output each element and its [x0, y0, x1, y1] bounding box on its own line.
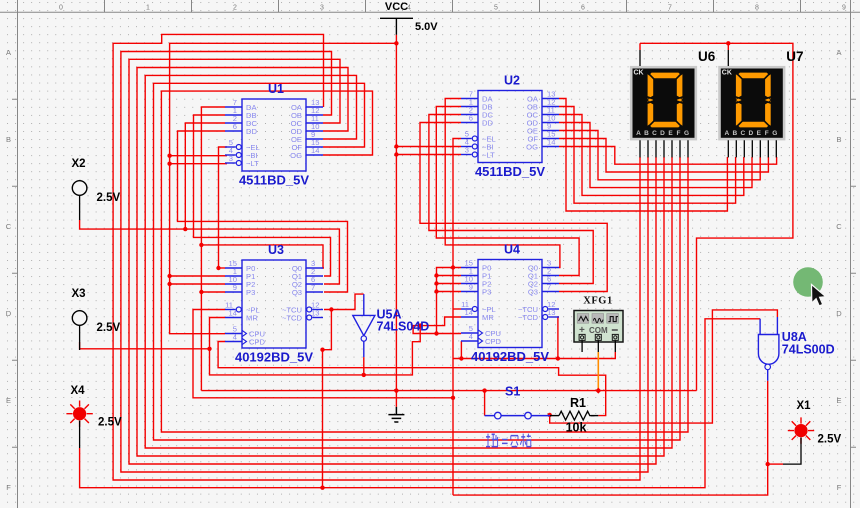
- IC U4 pin 4 (CPD) left: [461, 332, 502, 346]
- svg-text:4511BD_5V: 4511BD_5V: [239, 173, 309, 188]
- wire wrap U4 Q0 to U2 DA: [445, 99, 560, 268]
- svg-text:74LS00D: 74LS00D: [782, 343, 835, 357]
- svg-text:4: 4: [233, 333, 237, 342]
- inverter U5A 74LS04D: [353, 294, 375, 357]
- wire U4 ~TCD drop: [558, 317, 559, 359]
- svg-text:A: A: [724, 130, 729, 137]
- IC U2 pin 12 (OB) right: [527, 98, 559, 112]
- svg-text:14: 14: [547, 138, 555, 147]
- IC U1 pin 2 (DC) left: [225, 114, 257, 128]
- border column numbers: [59, 5, 846, 12]
- svg-text:C: C: [652, 130, 657, 137]
- svg-text:P3: P3: [246, 288, 255, 297]
- IC U2 pin 2 (DC) left: [461, 106, 493, 120]
- svg-text:2.5V: 2.5V: [97, 192, 121, 204]
- svg-text:D: D: [748, 130, 753, 137]
- XFG1 terminal labels: [579, 325, 618, 336]
- IC U4 pin 6 (Q2) right: [528, 275, 559, 289]
- IC U1 pin 15 (OF) right: [291, 138, 323, 152]
- IC U1 4511BD_5V body: [242, 99, 306, 171]
- junction U3 P2 on VCC rail: [167, 282, 171, 286]
- wire U4 P1 branch: [437, 275, 462, 277]
- svg-text:U3: U3: [268, 243, 284, 257]
- svg-text:4: 4: [469, 332, 473, 341]
- junction U3 ~PL on x453: [451, 396, 455, 400]
- wire U2 OF(15) to U7 seg F: [559, 139, 768, 173]
- svg-text:0: 0: [59, 5, 63, 12]
- probe X4 (lamp/indicator star): [66, 401, 92, 427]
- svg-text:2: 2: [233, 5, 237, 12]
- wire U3 P0 stub wire: [219, 267, 226, 269]
- wire wrap U4 Q2 to U2 DC: [429, 115, 593, 284]
- junction U5A output: [362, 373, 366, 377]
- svg-text:B: B: [6, 135, 11, 144]
- display U6 segment separators: [647, 72, 684, 129]
- label key equals space: [486, 434, 531, 447]
- junction X4 wire: [320, 486, 324, 490]
- wire X3 probe wire: [80, 342, 210, 349]
- wire U1 OG(14) to U6 seg G: [161, 91, 688, 432]
- svg-text:OG: OG: [526, 142, 538, 151]
- svg-text:XFG1: XFG1: [583, 296, 612, 307]
- wire U4 P3 branch: [437, 291, 462, 293]
- wire branch VCC to U3 P1: [170, 275, 225, 277]
- junction S1 R1 node: [548, 413, 552, 417]
- svg-text:CPD: CPD: [485, 337, 502, 346]
- junction U2 ~BI on rail: [394, 144, 398, 148]
- svg-text:MR: MR: [246, 313, 258, 322]
- junction rail at S1 node: [394, 388, 398, 392]
- wire U3 ~PL down to x453 net: [193, 310, 452, 398]
- svg-text:13: 13: [547, 308, 555, 317]
- IC U1 pin 11 (OC) right: [291, 114, 323, 128]
- IC U3 pin 7 (Q3) right: [292, 283, 323, 297]
- IC U4 pin 12 (~TCU) right: [518, 300, 559, 314]
- wire S1 branch down: [484, 391, 486, 416]
- wire U2 OG(14) to U7 seg G: [559, 147, 777, 165]
- wire U1 OF(15) to U6 seg F: [154, 83, 681, 440]
- probe X1 (lamp/indicator star): [788, 417, 814, 443]
- svg-text:P3: P3: [482, 287, 491, 296]
- svg-text:C: C: [836, 222, 842, 231]
- wire U8A output down: [453, 381, 768, 495]
- probe X3 (voltage probe circle): [72, 311, 87, 350]
- wire U1 ~EL to U3 P0: [219, 147, 228, 268]
- svg-text:E: E: [6, 396, 11, 405]
- IC U3 pin 12 (~TCU) right: [282, 301, 323, 315]
- IC U1 pin 14 (OG) right: [290, 146, 323, 160]
- IC U3 pin 5 (CPU) left: [225, 325, 265, 339]
- junction S1 vertical: [482, 388, 486, 392]
- IC U1 pin 6 (DD) left: [225, 122, 257, 136]
- display U7 pin letters: [724, 130, 777, 137]
- IC U4 pin 5 (CPU) left: [461, 324, 501, 338]
- wire U4 MR CPU jog: [413, 317, 461, 334]
- svg-text:C: C: [6, 222, 12, 231]
- wire X4 net vertical x=322.5: [322, 350, 324, 488]
- svg-text:3: 3: [465, 146, 469, 155]
- svg-text:CK: CK: [634, 70, 644, 77]
- IC U3 pin 15 (P0) left: [225, 259, 255, 273]
- svg-text:74LS04D: 74LS04D: [377, 320, 430, 334]
- svg-text:X1: X1: [797, 400, 812, 412]
- wire X2 probe wire: [80, 220, 186, 229]
- junction x453 at U4 P0: [451, 265, 455, 269]
- probe X1 lead: [783, 438, 801, 465]
- svg-text:1: 1: [146, 5, 150, 12]
- IC U2 pin 14 (OG) right: [526, 138, 559, 152]
- junction U3 P3: [199, 290, 203, 294]
- svg-text:MR: MR: [482, 313, 494, 322]
- svg-text:10k: 10k: [566, 421, 587, 435]
- svg-text:3: 3: [229, 154, 233, 163]
- svg-text:U1: U1: [268, 82, 284, 96]
- wire U2 OE(9) to U7 seg E: [559, 131, 760, 180]
- wire branch rail to U2 ~LT: [396, 154, 461, 156]
- svg-text:D: D: [836, 309, 842, 318]
- junction V1 at U4 CPU: [434, 331, 438, 335]
- svg-text:~LT: ~LT: [482, 150, 495, 159]
- svg-text:~TCD: ~TCD: [518, 313, 539, 322]
- wire branch U3 P3: [201, 291, 225, 293]
- junction U5A net at MR jog: [418, 323, 422, 327]
- wire U3 MR / U5A output net: [210, 318, 421, 375]
- svg-text:2.5V: 2.5V: [97, 322, 121, 334]
- wire U4 ~PL branch: [453, 308, 461, 310]
- seven-segment display U6 body: [631, 67, 696, 139]
- svg-text:7: 7: [668, 5, 672, 12]
- probe X2 (voltage probe circle): [72, 181, 87, 220]
- wire U2 OB(12) to U7 seg B: [559, 107, 736, 204]
- display U7 segment separators: [735, 72, 772, 129]
- IC U1 pin 7 (DA) left: [225, 98, 257, 112]
- IC U2 pin 1 (DB) left: [461, 98, 493, 112]
- wire U4 P2 branch: [437, 283, 462, 285]
- svg-text:4511BD_5V: 4511BD_5V: [475, 164, 545, 179]
- junction U1 ~BI on VCC rail: [167, 154, 171, 158]
- svg-text:8: 8: [755, 5, 759, 12]
- XFG1 terminals: [579, 334, 618, 340]
- svg-text:G: G: [772, 130, 777, 137]
- IC U4 pin 2 (Q1) right: [528, 267, 559, 281]
- svg-text:VCC: VCC: [385, 1, 408, 13]
- wire wrap U3 Q1 to U1 DB: [194, 115, 331, 276]
- wire XFG1 COM orange: [597, 352, 599, 391]
- wire U7 CK red stub: [727, 43, 729, 50]
- svg-text:A: A: [6, 48, 11, 57]
- junction U2 ~LT on rail: [394, 152, 398, 156]
- wire U4 CPD drop: [460, 341, 462, 359]
- junction U4 P3: [434, 289, 438, 293]
- IC U2 pin 3 (~LT) left: [461, 146, 495, 160]
- junction U1 DA wrap: [199, 243, 203, 247]
- wire U5A output to net dot: [363, 357, 365, 375]
- svg-text:U2: U2: [504, 74, 520, 88]
- IC U2 pin 4 (~BI) left: [461, 138, 494, 152]
- svg-text:F: F: [765, 130, 769, 137]
- svg-text:CPD: CPD: [249, 337, 266, 346]
- svg-text:E: E: [757, 130, 762, 137]
- junction X3 tap on MR wire: [207, 347, 211, 351]
- IC U2 pin 13 (OA) right: [527, 90, 559, 104]
- IC U3 pin 3 (Q0) right: [292, 259, 323, 273]
- wire clock to displays CK: [640, 43, 793, 390]
- wire U4 P0 branch: [437, 268, 462, 334]
- IC U1 pin 10 (OD) right: [291, 122, 323, 136]
- svg-text:X4: X4: [71, 385, 86, 397]
- junction U3 ~TCU drop: [329, 307, 333, 311]
- IC U4 pin 15 (P0) left: [461, 259, 491, 273]
- svg-text:13: 13: [311, 309, 319, 318]
- wire VCC horizontal rail to left: [170, 43, 397, 333]
- wire U3 ~TCU drop to X4 net: [323, 310, 332, 350]
- svg-text:U4: U4: [504, 243, 520, 257]
- svg-text:2.5V: 2.5V: [818, 434, 842, 446]
- junction U4 P1: [434, 273, 438, 277]
- IC U1 pin 5 (~EL) left: [225, 138, 260, 152]
- wire wrap U3 Q0 to U1 DA: [201, 245, 324, 268]
- svg-text:B: B: [836, 135, 841, 144]
- svg-text:DD: DD: [482, 118, 493, 127]
- svg-text:~TCD: ~TCD: [282, 313, 303, 322]
- svg-text:DD: DD: [246, 127, 257, 136]
- wire branch VCC to U3 P2: [170, 283, 225, 285]
- IC U4 pin 1 (P1) left: [461, 267, 491, 281]
- svg-text:9: 9: [469, 283, 473, 292]
- junction U4 P2: [434, 281, 438, 285]
- svg-text:7: 7: [311, 283, 315, 292]
- IC U4 pin 10 (P2) left: [461, 275, 491, 289]
- junction U7 CK: [726, 41, 730, 45]
- IC U3 pin 4 (CPD) left: [225, 333, 266, 347]
- svg-text:D: D: [6, 309, 12, 318]
- svg-text:6: 6: [581, 5, 585, 12]
- IC U2 pin 15 (OF) right: [527, 130, 559, 144]
- wire wrap U4 Q1 to U2 DB: [436, 107, 579, 276]
- ground symbol: [388, 407, 404, 422]
- svg-text:E: E: [836, 396, 841, 405]
- IC U3 pin 11 (~PL) left: [225, 301, 260, 315]
- svg-text:14: 14: [229, 309, 237, 318]
- IC U1 pin 4 (~BI) left: [225, 146, 258, 160]
- IC U4 pin 14 (MR) left: [461, 308, 494, 322]
- IC U4 pin 7 (Q3) right: [528, 283, 559, 297]
- NAND gate U8A 74LS00D: [758, 317, 779, 381]
- IC U3 pin 9 (P3) left: [225, 283, 255, 297]
- svg-text:6: 6: [469, 114, 473, 123]
- junction X1 on NAND output: [766, 462, 770, 466]
- svg-text:5.0V: 5.0V: [415, 21, 438, 33]
- svg-text:14: 14: [465, 308, 473, 317]
- IC U1 pin 1 (DB) left: [225, 106, 257, 120]
- switch S1: [485, 412, 550, 419]
- svg-text:E: E: [668, 130, 673, 137]
- IC U2 4511BD_5V body: [478, 91, 542, 163]
- XFG1 leads: [582, 341, 615, 352]
- wire branch VCC to U1 ~BI: [170, 155, 227, 157]
- display U6 digit 0 segments: [648, 73, 683, 128]
- mouse cursor highlight (green circle): [793, 267, 823, 297]
- probe X4 lead: [79, 421, 81, 449]
- svg-text:G: G: [684, 130, 689, 137]
- IC U2 pin 7 (DA) left: [461, 90, 493, 104]
- wire U2 OA(13) to U7 seg A: [559, 99, 727, 212]
- svg-text:9: 9: [233, 283, 237, 292]
- wire U2 ~EL long vertical x=453: [453, 139, 461, 496]
- wire U1 OB(12) to U6 seg B: [121, 52, 648, 473]
- svg-text:C: C: [740, 130, 745, 137]
- IC U4 40192BD_5V body: [478, 260, 542, 348]
- svg-text:U6: U6: [698, 49, 716, 64]
- wire U6 CK red stub: [639, 43, 641, 50]
- IC U3 40192BD_5V body: [242, 260, 306, 348]
- svg-text:9: 9: [842, 5, 846, 12]
- junction XFG COM on S1 node: [595, 388, 601, 394]
- junction U1 ~LT on VCC rail: [167, 162, 171, 166]
- IC U1 pin 3 (~LT) left: [225, 154, 259, 168]
- wire VCC vertical rail x=396: [395, 35, 397, 407]
- IC U4 pin 11 (~PL) left: [461, 300, 496, 314]
- IC U3 pin 10 (P2) left: [225, 275, 255, 289]
- svg-text:Q3: Q3: [292, 288, 302, 297]
- wire XFG1 minus wire: [453, 352, 615, 359]
- svg-text:F: F: [677, 130, 681, 137]
- wire U1 OD(10) to U6 seg D: [137, 68, 664, 457]
- svg-text:40192BD_5V: 40192BD_5V: [235, 350, 313, 365]
- svg-text:OG: OG: [290, 151, 302, 160]
- junction U4 ~TCD on XFG wire: [556, 356, 560, 360]
- svg-text:U7: U7: [786, 49, 803, 64]
- IC U1 pin 12 (OB) right: [291, 106, 323, 120]
- display U6 segment pin leads: [640, 140, 688, 157]
- wire branch rail to U2 ~BI: [396, 146, 461, 148]
- wire X4 to U8A input A: [80, 319, 761, 488]
- svg-text:5: 5: [494, 5, 498, 12]
- svg-text:F: F: [6, 483, 11, 492]
- wire wrap U3 Q2 to U1 DC with X2 tap: [185, 123, 339, 284]
- svg-text:R1: R1: [570, 396, 586, 410]
- power VCC symbol: [380, 1, 413, 35]
- IC U1 pin 9 (OE) right: [291, 130, 323, 144]
- IC U3 pin 6 (Q2) right: [292, 275, 323, 289]
- svg-text:B: B: [732, 130, 737, 137]
- junction U3 P1 on VCC rail: [167, 274, 171, 278]
- svg-text:6: 6: [233, 122, 237, 131]
- junction U4 CPD on XFG wire: [459, 356, 463, 360]
- svg-text:40192BD_5V: 40192BD_5V: [471, 349, 549, 364]
- wire wrap U4 Q3 to U2 DD: [420, 123, 607, 292]
- svg-text:X3: X3: [72, 288, 86, 300]
- wire X1 probe wire red part: [768, 463, 783, 465]
- svg-text:X2: X2: [72, 158, 86, 170]
- display U6 CK lead: [639, 50, 641, 66]
- svg-text:Q3: Q3: [528, 287, 538, 296]
- junction U1 ~EL at U3 P0: [216, 266, 220, 270]
- IC U4 pin 3 (Q0) right: [528, 259, 559, 273]
- junction X4 net corner: [320, 348, 324, 352]
- svg-text:COM: COM: [589, 326, 608, 335]
- svg-text:S1: S1: [505, 385, 520, 399]
- svg-text:7: 7: [547, 283, 551, 292]
- svg-text:B: B: [644, 130, 649, 137]
- svg-text:14: 14: [311, 146, 319, 155]
- wire U1 OC(11) to U6 seg C: [129, 59, 656, 464]
- wire U3 CPD to R1 right: [218, 342, 606, 416]
- wire wrap U3 Q3 to U1 DD: [178, 131, 348, 292]
- IC U3 pin 2 (Q1) right: [292, 267, 323, 281]
- wire U1 OE(9) to U6 seg E: [145, 75, 672, 448]
- mouse cursor arrow: [812, 285, 826, 306]
- IC U2 pin 9 (OE) right: [527, 122, 559, 136]
- display U7 segment pin leads: [728, 140, 776, 157]
- seven-segment display U7 body: [720, 67, 785, 139]
- resistor R1 10k: [550, 411, 598, 420]
- wire branch VCC to U1 ~LT: [170, 163, 227, 165]
- function generator XFG1: [574, 311, 623, 343]
- display U6 pin letters: [636, 130, 689, 137]
- wire net U3 Q0 / U1 DA / S1 vertical: [201, 107, 225, 391]
- wire U2 OD(10) to U7 seg D: [559, 123, 752, 188]
- wire U2 OC(11) to U7 seg C: [559, 115, 744, 196]
- IC U2 pin 10 (OD) right: [527, 114, 559, 128]
- junction X2 tap: [183, 227, 187, 231]
- svg-text:~LT: ~LT: [246, 159, 259, 168]
- wire U3 ~TCU to U5A input: [324, 294, 364, 309]
- wire U1 OA(13) to U6 seg A: [113, 34, 640, 480]
- svg-text:A: A: [636, 130, 641, 137]
- IC U4 pin 13 (~TCD) right: [518, 308, 559, 322]
- IC U1 pin 13 (OA) right: [291, 98, 323, 112]
- svg-text:A: A: [836, 48, 841, 57]
- svg-text:F: F: [837, 483, 842, 492]
- wire S1 node horizontal y=390.6: [201, 390, 696, 392]
- wire S1-R1 junction to U8A input B: [550, 310, 778, 423]
- IC U3 pin 13 (~TCD) right: [282, 309, 323, 323]
- svg-text:D: D: [660, 130, 665, 137]
- IC U3 pin 14 (MR) left: [225, 309, 258, 323]
- display U7 digit 0 segments: [736, 73, 771, 128]
- IC U4 pin 9 (P3) left: [461, 283, 491, 297]
- display U7 CK lead: [727, 50, 729, 66]
- svg-text:CK: CK: [722, 70, 732, 77]
- junction VCC tee: [394, 41, 398, 45]
- IC U2 pin 6 (DD) left: [461, 114, 493, 128]
- IC U2 pin 5 (~EL) left: [461, 130, 496, 144]
- svg-text:2.5V: 2.5V: [98, 417, 122, 429]
- svg-text:3: 3: [320, 5, 324, 12]
- IC U3 pin 1 (P1) left: [225, 267, 255, 281]
- IC U2 pin 11 (OC) right: [527, 106, 559, 120]
